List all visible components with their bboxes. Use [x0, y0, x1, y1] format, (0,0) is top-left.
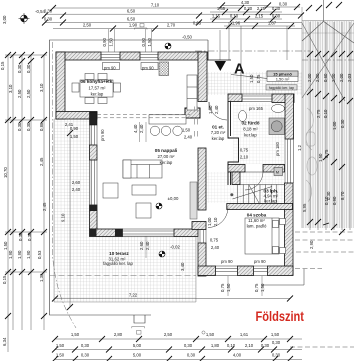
terrace grid floor [54, 119, 196, 302]
svg-text:2,25: 2,25 [257, 6, 266, 11]
svg-text:fagyálló ker. lap: fagyálló ker. lap [269, 86, 294, 90]
svg-text:2,03: 2,03 [347, 73, 352, 82]
szoba south wall [198, 266, 216, 276]
svg-text:06 konyha+étk.: 06 konyha+étk. [80, 79, 113, 84]
svg-text:1,50: 1,50 [71, 332, 80, 337]
svg-text:4,30: 4,30 [241, 0, 250, 5]
svg-text:17,57 m²: 17,57 m² [89, 86, 107, 91]
svg-text:1,96: 1,96 [232, 21, 241, 26]
svg-text:lam. padló: lam. padló [247, 224, 267, 229]
svg-text:0,30: 0,30 [244, 6, 253, 11]
top wall segments [56, 52, 208, 60]
svg-text:0,30: 0,30 [17, 122, 22, 131]
svg-text:0,30: 0,30 [81, 343, 90, 348]
svg-text:0,90: 0,90 [141, 38, 146, 47]
svg-text:0,30: 0,30 [272, 6, 281, 11]
svg-text:±0,00: ±0,00 [168, 196, 179, 201]
left kitchen wall [56, 52, 65, 119]
svg-text:2,90: 2,90 [309, 240, 314, 249]
svg-text:5,00: 5,00 [133, 353, 142, 358]
rotated small pair labels below top dims [2, 15, 152, 46]
svg-text:3,10: 3,10 [8, 84, 13, 93]
svg-text:2,15: 2,15 [255, 14, 264, 19]
right neighbour band [302, 21, 354, 228]
svg-text:6,34: 6,34 [2, 337, 7, 346]
svg-text:1,50: 1,50 [109, 38, 114, 47]
svg-text:1,50: 1,50 [271, 332, 280, 337]
svg-text:1,50: 1,50 [206, 332, 215, 337]
svg-text:1,90: 1,90 [17, 250, 22, 259]
svg-text:2,50: 2,50 [164, 332, 173, 337]
svg-text:1,50 m²: 1,50 m² [276, 76, 290, 81]
svg-text:0,30: 0,30 [340, 119, 345, 128]
interior dims [65, 122, 249, 250]
svg-text:8,18 m²: 8,18 m² [243, 126, 258, 131]
island + stools [149, 115, 186, 136]
svg-text:0,53: 0,53 [37, 250, 42, 259]
svg-text:2,50: 2,50 [17, 89, 22, 98]
svg-text:pm 90: pm 90 [142, 66, 154, 71]
svg-text:1,15: 1,15 [212, 14, 221, 19]
east wall lower [285, 183, 294, 275]
kitchen east wall [198, 52, 207, 102]
svg-text:1,90: 1,90 [8, 250, 13, 259]
bed szoba [245, 218, 286, 254]
svg-text:1,50: 1,50 [182, 128, 191, 133]
svg-text:pm 90: pm 90 [100, 129, 105, 141]
svg-text:0,15: 0,15 [2, 275, 7, 284]
level markers [156, 196, 181, 257]
svg-text:pm 90: pm 90 [221, 259, 233, 264]
svg-text:2,41: 2,41 [65, 122, 74, 127]
svg-text:7,22: 7,22 [129, 293, 138, 298]
svg-text:9,10: 9,10 [61, 213, 66, 222]
svg-text:0,10: 0,10 [227, 343, 236, 348]
svg-text:1,50: 1,50 [147, 38, 152, 47]
svg-text:0,10: 0,10 [230, 14, 239, 19]
living south wall [90, 229, 123, 237]
svg-text:3,40: 3,40 [180, 262, 185, 271]
svg-text:0,65: 0,65 [193, 21, 202, 26]
small outline bottom right [262, 269, 304, 286]
svg-text:01 et.: 01 et. [212, 125, 224, 130]
svg-text:0,30: 0,30 [27, 232, 32, 241]
svg-text:0,30: 0,30 [261, 343, 270, 348]
bath north wall [272, 94, 294, 103]
pm labels [100, 66, 280, 265]
svg-text:6,50: 6,50 [127, 17, 136, 22]
svg-text:1,90: 1,90 [26, 250, 31, 259]
svg-text:2,00: 2,00 [315, 73, 320, 82]
svg-text:04 szoba: 04 szoba [247, 213, 267, 218]
svg-text:2,60: 2,60 [139, 241, 144, 250]
step wall kitchen-terrace [56, 112, 97, 120]
svg-text:1,2: 1,2 [297, 144, 302, 151]
pihenő box [266, 71, 298, 90]
bath fixtures [239, 105, 285, 176]
svg-text:02 fürdő: 02 fürdő [241, 121, 259, 126]
svg-text:8,70: 8,70 [340, 191, 345, 200]
svg-text:1,61: 1,61 [240, 332, 249, 337]
svg-text:2,40: 2,40 [145, 241, 150, 250]
svg-text:0,30: 0,30 [272, 353, 281, 358]
svg-text:Földszint: Földszint [256, 309, 305, 324]
svg-text:2,40: 2,40 [214, 105, 219, 114]
svg-text:fagyálló ker. lap: fagyálló ker. lap [103, 261, 133, 266]
svg-text:1,87: 1,87 [268, 21, 277, 26]
marker circle top-left [19, 13, 30, 24]
svg-text:1,50: 1,50 [3, 241, 8, 250]
svg-text:0,30: 0,30 [18, 232, 23, 241]
svg-text:2,50: 2,50 [83, 23, 92, 28]
svg-text:5,00: 5,00 [133, 343, 142, 348]
pihenő landing grid [207, 72, 302, 95]
stairs treads [232, 185, 284, 204]
svg-text:0,90: 0,90 [102, 38, 107, 47]
svg-text:pm 90: pm 90 [254, 259, 266, 264]
svg-text:2,45: 2,45 [39, 157, 44, 166]
dash-dot overhang line [53, 42, 77, 328]
svg-text:3,00: 3,00 [2, 15, 7, 24]
svg-text:0,75: 0,75 [324, 149, 329, 158]
svg-text:0,30: 0,30 [17, 64, 22, 73]
svg-text:1,50: 1,50 [56, 353, 65, 358]
svg-text:4,00: 4,00 [233, 353, 242, 358]
svg-text:0,75: 0,75 [240, 148, 249, 153]
svg-text:27,00 m²: 27,00 m² [158, 154, 176, 159]
svg-text:pm 165: pm 165 [249, 106, 264, 111]
svg-text:ker.lap: ker.lap [244, 132, 257, 137]
svg-text:0,30: 0,30 [279, 2, 288, 7]
svg-text:0,75: 0,75 [210, 238, 219, 243]
svg-text:0,60: 0,60 [323, 73, 328, 82]
eaves / terrace outline [50, 40, 209, 323]
entrance east thin wall with jog [228, 102, 239, 186]
svg-text:2,10: 2,10 [213, 217, 218, 226]
living east / szoba west wall [198, 148, 206, 210]
svg-text:0,30: 0,30 [44, 9, 53, 14]
section line A-A [195, 50, 310, 52]
ramp edge [231, 75, 272, 80]
svg-text:1,50: 1,50 [318, 153, 323, 162]
living west wall piers [90, 112, 98, 125]
svg-text:2,40: 2,40 [139, 124, 144, 133]
dining table + chairs [72, 74, 121, 104]
svg-text:1,50: 1,50 [260, 283, 265, 292]
dashed upper-floor outline [97, 115, 190, 118]
svg-text:ker.lap: ker.lap [160, 160, 173, 165]
svg-text:1,50: 1,50 [249, 74, 254, 83]
svg-text:7,10: 7,10 [151, 3, 160, 8]
svg-text:2,75: 2,75 [316, 109, 321, 118]
svg-text:0,30: 0,30 [272, 340, 281, 345]
svg-text:0,30: 0,30 [81, 353, 90, 358]
svg-text:1,50: 1,50 [226, 283, 231, 292]
svg-text:1,80: 1,80 [211, 343, 220, 348]
svg-text:5,95: 5,95 [302, 203, 307, 212]
svg-text:11,60 m²: 11,60 m² [248, 218, 265, 223]
kitchen units [159, 62, 169, 76]
svg-text:4,40: 4,40 [133, 124, 138, 133]
chimney block [185, 108, 200, 118]
svg-text:2,70: 2,70 [167, 23, 176, 28]
svg-text:2,80: 2,80 [114, 332, 123, 337]
svg-text:2,45: 2,45 [42, 202, 47, 211]
svg-text:pm 180: pm 180 [275, 141, 280, 156]
svg-text:0,75: 0,75 [256, 74, 261, 83]
svg-text:0,88: 0,88 [39, 122, 44, 131]
svg-text:2,40: 2,40 [184, 134, 193, 139]
svg-text:0,30: 0,30 [187, 353, 196, 358]
svg-text:0,30: 0,30 [44, 17, 53, 22]
east wall upper [285, 94, 294, 139]
canopy / section A marker [208, 59, 231, 61]
svg-text:0,30: 0,30 [26, 64, 31, 73]
windows in top wall [101, 52, 158, 60]
svg-text:2,00: 2,00 [331, 73, 336, 82]
svg-text:2,10: 2,10 [245, 343, 254, 348]
svg-text:0,15: 0,15 [0, 61, 5, 70]
svg-text:2,50: 2,50 [26, 89, 31, 98]
svg-text:0,75: 0,75 [254, 283, 259, 292]
east window [285, 139, 294, 183]
svg-text:ker.lap: ker.lap [91, 92, 104, 97]
svg-text:6,50: 6,50 [127, 9, 136, 14]
marker -0.50 [165, 35, 193, 50]
svg-text:2,40: 2,40 [72, 187, 81, 192]
svg-text:1,90: 1,90 [129, 23, 138, 28]
sideboard [190, 182, 197, 219]
svg-text:1,65: 1,65 [217, 6, 226, 11]
svg-text:0,90: 0,90 [332, 196, 337, 205]
svg-text:ker.lap: ker.lap [264, 199, 277, 204]
svg-text:2,40: 2,40 [211, 245, 220, 250]
svg-text:0,10: 0,10 [323, 109, 328, 118]
svg-text:2,00: 2,00 [339, 73, 344, 82]
sofa set [103, 160, 162, 218]
stairs/szoba north wall [227, 204, 293, 210]
door arcs [208, 102, 263, 228]
svg-text:0,30: 0,30 [26, 122, 31, 131]
svg-text:1,50: 1,50 [56, 343, 65, 348]
room labels [80, 79, 278, 266]
svg-text:05 nappali: 05 nappali [155, 148, 177, 153]
bath south wall [228, 165, 245, 173]
svg-text:10 terasz: 10 terasz [109, 251, 129, 256]
svg-text:2,60: 2,60 [72, 180, 81, 185]
dashed lines right lower [290, 232, 354, 347]
svg-text:2,10: 2,10 [240, 155, 249, 160]
svg-text:3,10: 3,10 [39, 83, 44, 92]
svg-text:-0,50: -0,50 [182, 35, 192, 40]
svg-text:ker.lap: ker.lap [212, 136, 225, 141]
svg-text:2,00: 2,00 [307, 73, 312, 82]
entrance north pier [228, 94, 242, 102]
svg-text:0,75: 0,75 [220, 283, 225, 292]
svg-text:1,00: 1,00 [332, 121, 337, 130]
svg-text:-0,02: -0,02 [170, 245, 180, 250]
svg-text:pm 90: pm 90 [104, 66, 116, 71]
svg-text:-0,54: -0,54 [35, 9, 45, 14]
window entrance-pihenő [242, 94, 272, 102]
svg-text:7,20 m²: 7,20 m² [211, 130, 226, 135]
svg-text:M: M [276, 170, 279, 175]
svg-text:1,38: 1,38 [39, 273, 44, 282]
svg-text:1,00: 1,00 [207, 217, 212, 226]
svg-text:0,30: 0,30 [272, 14, 281, 19]
svg-text:0,30: 0,30 [326, 191, 331, 200]
svg-text:1,00: 1,00 [208, 105, 213, 114]
svg-text:0,30: 0,30 [184, 343, 193, 348]
svg-text:10,70: 10,70 [3, 167, 8, 178]
svg-text:1,50: 1,50 [70, 134, 79, 139]
